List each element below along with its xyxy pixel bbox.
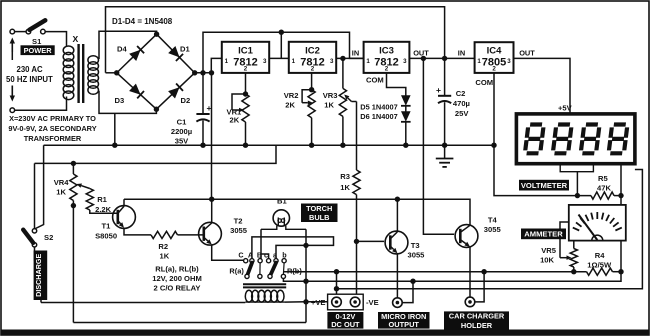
wire +VE riser <box>336 272 338 295</box>
wire bridge right node to IC1 pin1 <box>195 58 222 72</box>
svg-text:RL(a), RL(b): RL(a), RL(b) <box>155 265 199 274</box>
wire VR4 bottom long drop <box>72 206 74 323</box>
wire IC3 com to diodes D5 D6 <box>387 73 406 96</box>
wire secondary bottom to bridge bottom rail <box>98 92 157 114</box>
svg-text:VOLTMETER: VOLTMETER <box>521 181 568 190</box>
transformer X secondary winding <box>88 56 99 65</box>
diode D2 <box>168 87 179 98</box>
svg-text:1K: 1K <box>56 188 66 197</box>
svg-text:25V: 25V <box>455 109 469 118</box>
resistor R4 <box>587 268 613 275</box>
regulator IC4 7805 <box>475 42 514 73</box>
svg-text:DC OUT: DC OUT <box>331 320 360 329</box>
display bottom tap bracket <box>560 164 593 172</box>
svg-text:C1: C1 <box>177 118 187 127</box>
wire collector rail T1 T2 T3 T4 <box>124 199 470 225</box>
svg-text:R5: R5 <box>598 174 608 183</box>
svg-text:35V: 35V <box>175 137 189 146</box>
wire IC3 out to IC4 in junction <box>409 57 444 59</box>
svg-text:9V-0-9V, 2A SECONDARY: 9V-0-9V, 2A SECONDARY <box>8 124 96 133</box>
wire IC4 com down to zero rail <box>493 73 495 145</box>
svg-text:IN: IN <box>352 49 359 58</box>
svg-text:1K: 1K <box>324 101 334 110</box>
svg-text:3055: 3055 <box>484 225 502 234</box>
relay arm R(b) <box>270 263 276 276</box>
wire T4 emitter to car charger terminal <box>469 247 471 297</box>
diode D5 <box>401 95 411 106</box>
wire AC top terminal to S1 <box>15 31 27 33</box>
svg-text:R3: R3 <box>340 172 350 181</box>
svg-text:IC4: IC4 <box>487 46 503 57</box>
svg-text:3: 3 <box>507 58 511 65</box>
svg-text:+5V: +5V <box>558 104 573 113</box>
DC out terminal block <box>328 294 364 310</box>
resistor R2 <box>151 231 178 238</box>
label MICRO IRON OUTPUT <box>378 312 430 329</box>
wire ammeter left to VR5 wiper <box>560 222 569 258</box>
svg-text:TRANSFORMER: TRANSFORMER <box>24 134 82 143</box>
wire coil right to +VE node <box>284 301 327 303</box>
svg-text:2: 2 <box>385 66 389 73</box>
svg-text:+: + <box>436 85 441 95</box>
display digit 4 <box>609 125 628 154</box>
svg-text:D5 1N4007: D5 1N4007 <box>360 103 397 112</box>
svg-text:IN: IN <box>458 49 465 58</box>
wire rail drop to discharge switch S2 <box>35 145 44 229</box>
display digit 1 <box>525 125 544 154</box>
transformer X primary winding <box>63 46 74 55</box>
svg-text:2: 2 <box>311 66 315 73</box>
wire T3 collector to rail <box>396 199 398 232</box>
wire T2 emitter to relay common contact C <box>212 244 244 260</box>
wire T1 collector to 12V collector rail <box>123 199 125 206</box>
svg-text:1K: 1K <box>160 252 170 261</box>
label CAR CHARGER HOLDER <box>444 311 509 330</box>
svg-text:2200µ: 2200µ <box>171 127 192 136</box>
svg-text:OUT: OUT <box>519 49 535 58</box>
label DISCHARGE vertical <box>34 251 48 301</box>
terminal car charger <box>465 297 475 307</box>
svg-text:IC3: IC3 <box>379 45 394 56</box>
wire IC1 out to IC2 in <box>269 57 289 59</box>
label 0-12V DC OUT <box>327 312 363 329</box>
label TORCH BULB <box>301 204 338 223</box>
wire IC4 out to display <box>514 58 571 114</box>
svg-text:2K: 2K <box>230 116 240 125</box>
bulb base and leads <box>261 226 277 230</box>
svg-text:47K: 47K <box>597 184 611 193</box>
wire bridge bottom to zero rail <box>114 113 116 145</box>
wire bulb left lead down to contact B <box>260 229 262 258</box>
voltmeter display <box>516 114 635 164</box>
svg-text:3055: 3055 <box>230 226 248 235</box>
svg-text:X: X <box>73 34 79 44</box>
switch S2 <box>34 163 36 228</box>
svg-text:C2: C2 <box>456 89 466 98</box>
wire T3 emitter to micro iron terminal <box>396 253 398 298</box>
svg-text:S2: S2 <box>44 233 53 242</box>
wire R3 to T3 base and -VE riser <box>356 195 358 297</box>
node AC input top terminal <box>10 29 15 34</box>
regulator IC3 7812 <box>364 42 410 73</box>
svg-text:COM: COM <box>475 78 493 87</box>
terminal +VE <box>332 297 342 307</box>
transistor T4 3055 <box>455 225 478 248</box>
node bridge left <box>114 70 119 75</box>
label AMMETER <box>521 229 566 240</box>
svg-text:T1: T1 <box>102 222 112 231</box>
svg-text:OUT: OUT <box>413 49 429 58</box>
node AC input bottom terminal <box>10 108 15 113</box>
svg-text:230 AC: 230 AC <box>17 65 44 74</box>
switch S1 <box>26 29 31 34</box>
svg-text:X=230V AC PRIMARY TO: X=230V AC PRIMARY TO <box>9 114 96 123</box>
node bridge right <box>192 70 197 75</box>
wire R2 to T2 base <box>178 234 204 236</box>
wire 12V output rail A <box>283 271 586 273</box>
wire meter minus rail C <box>337 170 643 289</box>
svg-text:C: C <box>238 251 243 260</box>
wire T2 collector up to rail <box>211 199 213 223</box>
wire VR4 bottom rail <box>73 322 306 324</box>
diode D4 <box>129 50 140 61</box>
regulator IC2 7812 <box>289 42 336 73</box>
resistor R1 <box>86 189 93 211</box>
node bridge top <box>154 32 159 37</box>
wire S1 to transformer primary top <box>45 32 66 47</box>
svg-text:1: 1 <box>225 58 229 65</box>
svg-text:3: 3 <box>263 58 267 65</box>
node bridge bottom <box>154 107 159 112</box>
svg-text:IC1: IC1 <box>238 45 254 56</box>
potentiometer VR4 <box>71 161 76 166</box>
svg-text:470µ: 470µ <box>453 99 470 108</box>
svg-text:CAR CHARGER: CAR CHARGER <box>449 312 505 321</box>
svg-text:AMMETER: AMMETER <box>524 230 563 239</box>
svg-text:HOLDER: HOLDER <box>461 321 493 330</box>
label POWER <box>21 45 55 55</box>
potentiometer VR1 <box>245 73 247 94</box>
svg-text:T2: T2 <box>234 217 243 226</box>
transistor T3 3055 <box>385 231 408 254</box>
wire T1 emitter to R2 <box>124 228 151 235</box>
transistor T1 S8050 <box>113 206 136 229</box>
wire VR4 wiper to R1 <box>81 186 90 189</box>
svg-text:3: 3 <box>403 58 407 65</box>
svg-text:2: 2 <box>244 66 248 73</box>
node on 17V rail feeding IC1-IC2 junction <box>279 30 284 35</box>
terminal -VE <box>350 297 360 307</box>
wire discharge bottom rail to coil left <box>41 302 245 304</box>
display digit 3 <box>581 125 600 154</box>
relay contact B lower <box>259 263 261 275</box>
svg-text:T3: T3 <box>411 241 420 250</box>
diode D3 <box>129 84 141 95</box>
wire S2 to bottom discharge rail <box>35 247 42 303</box>
capacitor C2 <box>444 58 446 95</box>
svg-text:D1: D1 <box>180 45 190 54</box>
svg-text:POWER: POWER <box>24 46 53 55</box>
wire sense rail B <box>283 272 621 282</box>
svg-text:3055: 3055 <box>408 251 426 260</box>
wire contact c stub <box>261 254 269 259</box>
svg-text:VR2: VR2 <box>284 91 299 100</box>
svg-text:1: 1 <box>366 58 370 65</box>
svg-text:R4: R4 <box>595 251 605 260</box>
wire zero volt rail <box>44 144 494 146</box>
wire VR3 wiper to R3 line <box>352 101 357 103</box>
wire AC bottom terminal to primary bottom <box>15 97 67 111</box>
svg-text:D1-D4 = 1N5408: D1-D4 = 1N5408 <box>112 17 173 26</box>
wire 17V rail from C1 over IC1 IC2 to IC3 input <box>203 32 364 73</box>
svg-text:1Ω/5W: 1Ω/5W <box>587 261 612 270</box>
svg-text:2: 2 <box>492 66 496 73</box>
wire adjust rail from S2 drop to riser <box>35 145 277 163</box>
resistor R5 <box>591 192 614 199</box>
230 AC 50Hz input arrows and text <box>11 44 13 53</box>
svg-text:VR3: VR3 <box>323 91 338 100</box>
transformer X core <box>77 44 79 103</box>
svg-text:BULB: BULB <box>309 213 330 222</box>
wire bulb right lead down long drop <box>305 229 307 322</box>
svg-text:VR5: VR5 <box>541 246 557 255</box>
svg-text:VR4: VR4 <box>54 178 70 187</box>
wire top rail from bridge minus to IC4 input junction <box>106 7 445 73</box>
label VOLTMETER <box>519 180 569 191</box>
wire bridge plus down to T2 collector rail <box>211 73 213 199</box>
wire secondary top to bridge top node <box>98 31 157 58</box>
transistor T2 3055 <box>199 222 222 245</box>
wire IC4 com line to R5 <box>494 145 591 195</box>
display digit 2 <box>553 125 572 154</box>
potentiometer VR3 <box>340 56 345 61</box>
regulator IC1 7812 <box>222 42 269 73</box>
svg-text:OUTPUT: OUTPUT <box>389 320 420 329</box>
wire display right side down <box>620 164 622 272</box>
bridge rectifier diamond wires <box>117 34 195 109</box>
svg-text:IC2: IC2 <box>305 45 320 56</box>
svg-text:+VE: +VE <box>311 298 326 307</box>
svg-text:R(a): R(a) <box>229 267 244 276</box>
wire coil terminals <box>245 301 284 303</box>
svg-text:10K: 10K <box>540 256 554 265</box>
resistor R3 <box>356 102 358 171</box>
svg-text:R2: R2 <box>158 242 168 251</box>
svg-text:S8050: S8050 <box>95 232 117 241</box>
svg-text:D6 1N4007: D6 1N4007 <box>360 112 397 121</box>
svg-text:1: 1 <box>292 58 296 65</box>
svg-text:-VE: -VE <box>366 298 379 307</box>
svg-text:COM: COM <box>366 76 384 85</box>
svg-text:3: 3 <box>330 58 334 65</box>
svg-text:T4: T4 <box>488 216 498 225</box>
svg-text:S1: S1 <box>32 37 42 46</box>
svg-text:c: c <box>264 251 268 260</box>
svg-text:+: + <box>207 103 212 113</box>
relay coil core <box>243 283 286 285</box>
terminal micro iron <box>393 298 403 308</box>
svg-text:D2: D2 <box>181 96 191 105</box>
wire IC2 out to IC3 in <box>336 57 363 59</box>
diode D1 <box>168 46 179 57</box>
svg-text:B1: B1 <box>277 197 287 206</box>
potentiometer VR2 <box>311 73 313 90</box>
svg-text:12V, 200 OHM: 12V, 200 OHM <box>152 274 202 283</box>
wire R1 to T1 base <box>90 210 118 213</box>
svg-text:D4: D4 <box>117 45 127 54</box>
node IC4 input junction <box>442 56 447 61</box>
wire contact A loop to contact a <box>252 237 334 259</box>
svg-text:50 HZ INPUT: 50 HZ INPUT <box>6 75 53 84</box>
svg-text:TORCH: TORCH <box>306 204 332 213</box>
ammeter needle <box>579 215 598 241</box>
svg-text:R1: R1 <box>97 195 107 204</box>
ground <box>444 145 446 158</box>
svg-text:2 C/O RELAY: 2 C/O RELAY <box>154 284 201 293</box>
relay arm R(a) <box>247 263 252 276</box>
svg-text:2K: 2K <box>285 101 295 110</box>
svg-text:DISCHARGE: DISCHARGE <box>34 254 43 297</box>
relay coil winding <box>245 290 252 302</box>
wire IC3 out down to T4 base <box>423 58 454 234</box>
diode D6 <box>405 106 407 112</box>
wire bridge left node stub <box>106 72 117 74</box>
ammeter meter <box>569 205 626 241</box>
svg-text:D3: D3 <box>115 96 125 105</box>
svg-text:1: 1 <box>477 58 481 65</box>
capacitor C1 <box>202 73 204 114</box>
svg-text:1K: 1K <box>340 183 350 192</box>
potentiometer VR5 <box>573 241 575 249</box>
